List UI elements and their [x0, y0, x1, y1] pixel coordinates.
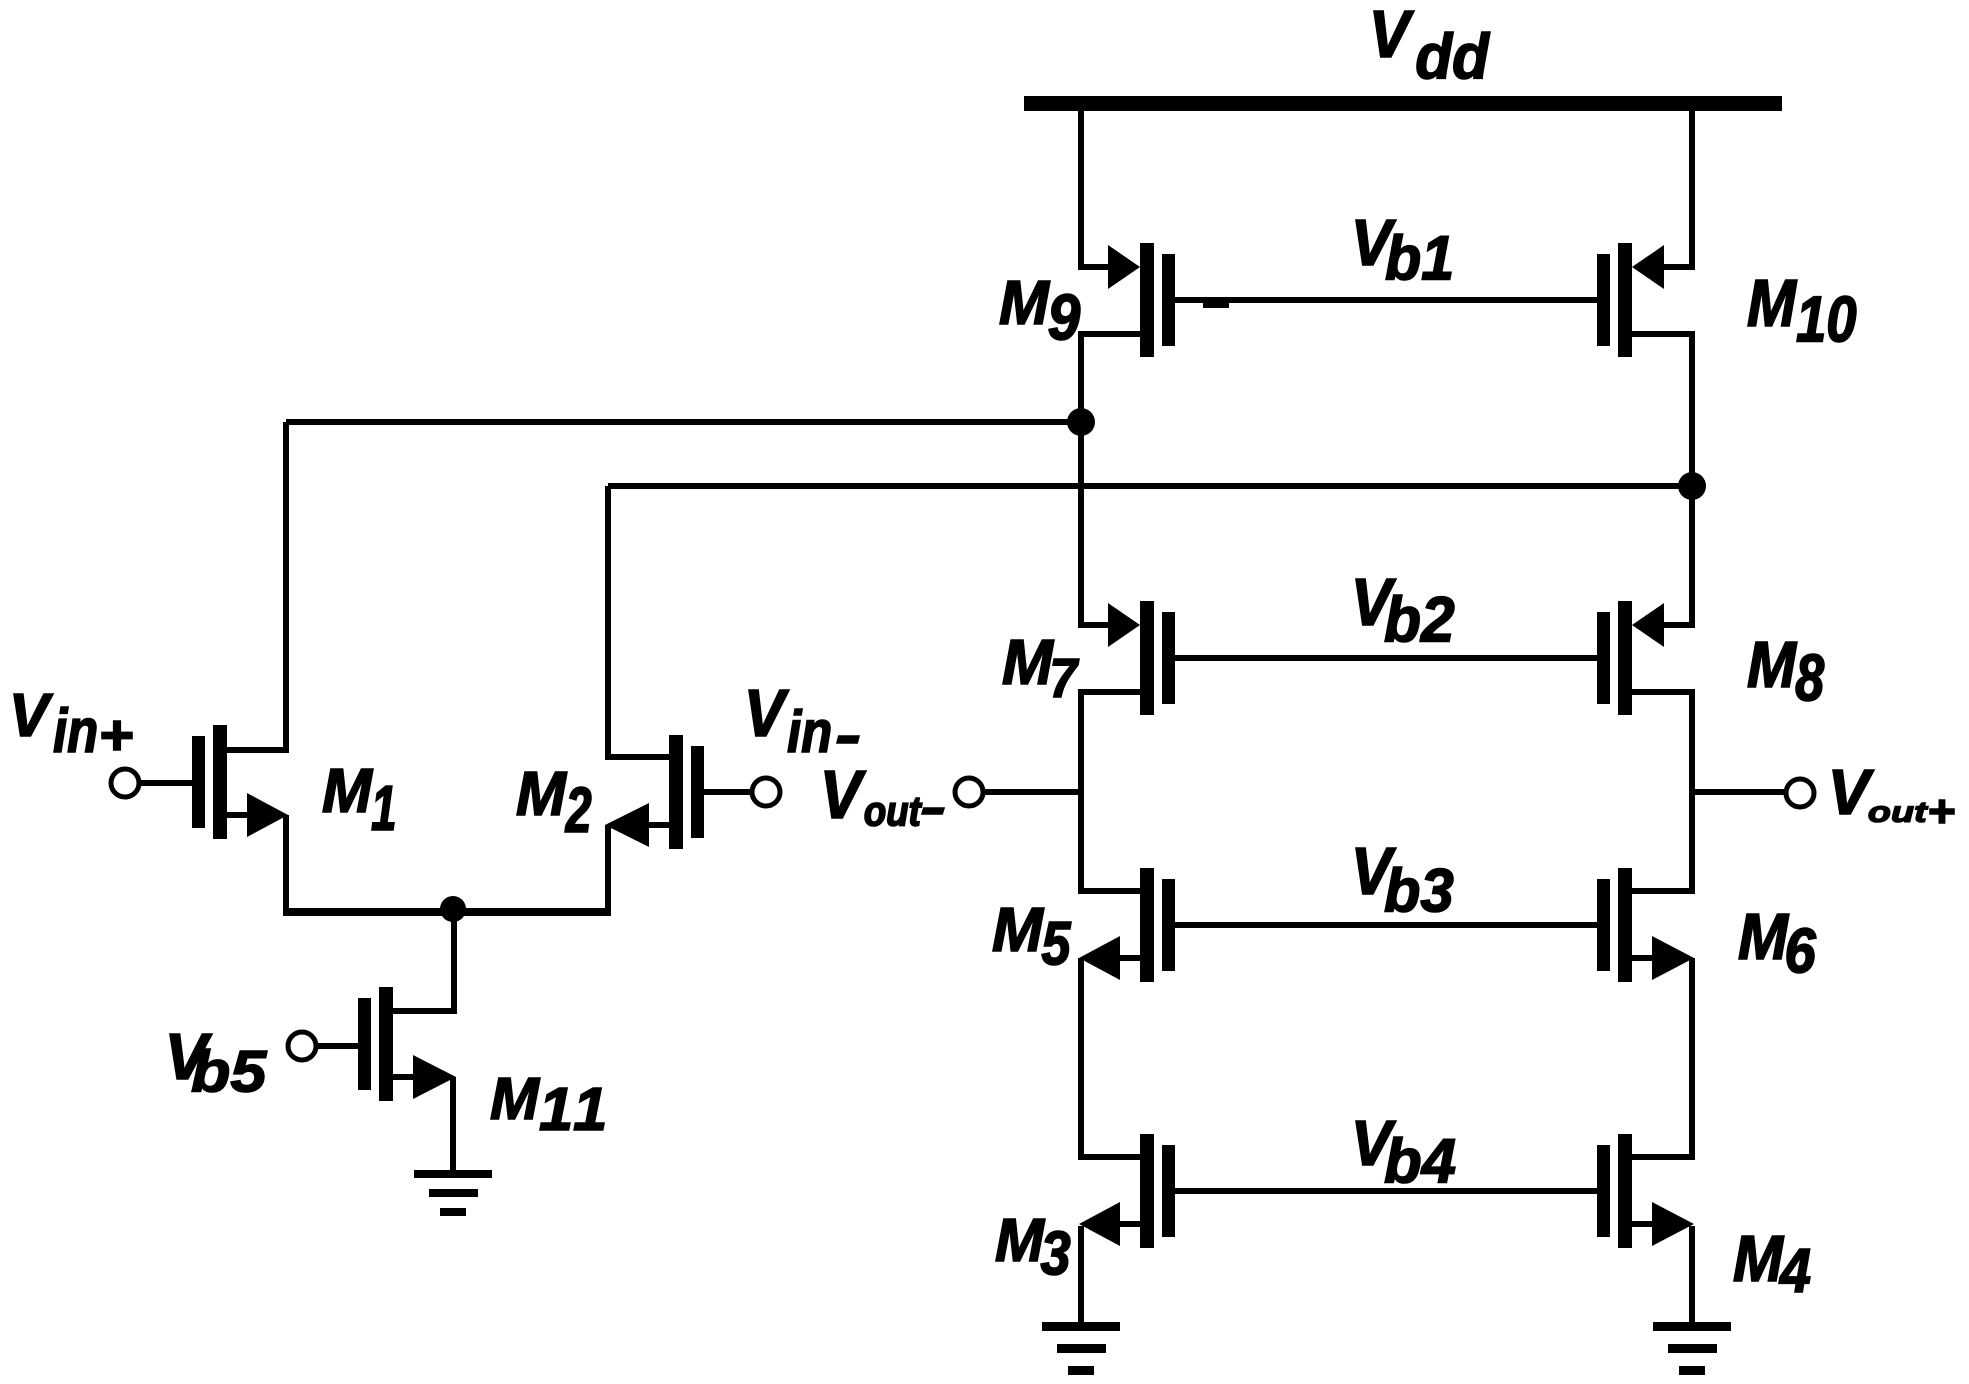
transistor M7 (PMOS cascode)	[1078, 601, 1175, 715]
wire M2 source down	[605, 825, 611, 916]
wire Vout+ to right cascode node	[1692, 789, 1785, 795]
wire M3 source to ground	[1078, 1226, 1084, 1322]
net label Vout+	[1833, 770, 1954, 823]
label M2	[517, 772, 591, 832]
junction node M9 drain / M1 gate	[1067, 408, 1095, 436]
net label Vdd	[1374, 11, 1490, 79]
wire Vdd rail to M10 source	[1689, 108, 1695, 267]
label M9	[1000, 281, 1080, 340]
wire M8 drain to M6 drain	[1689, 691, 1695, 892]
label M4	[1734, 1236, 1810, 1292]
wire M6 source to M4 drain	[1689, 958, 1695, 1157]
net label Vb1	[1356, 220, 1451, 280]
wire M2 gate feedback	[605, 483, 1692, 757]
net label Vin+	[14, 694, 132, 752]
wire Vb4 gate line (M3 gate to M4 gate)	[1175, 1188, 1597, 1194]
wire Vb3 gate line (M5 gate to M6 gate)	[1175, 922, 1597, 928]
junction tail node	[440, 896, 466, 922]
transistor M3 (NMOS)	[1078, 1134, 1175, 1248]
wire Vb5 to M11 gate	[315, 1043, 358, 1049]
wire Vin+ to M1 gate	[138, 780, 192, 786]
wire M10 drain to M8 source	[1689, 334, 1695, 625]
junction node M10 drain / M2 gate	[1678, 472, 1706, 500]
wire tail node to M11 drain	[451, 909, 457, 1011]
transistor M2 (NMOS input)	[605, 735, 704, 849]
wire Vb2 gate line (M7 gate to M8 gate)	[1175, 655, 1597, 661]
wire M1 source down	[283, 815, 289, 916]
wire Vb1 gate line (M9 gate to M10 gate)	[1175, 297, 1597, 308]
label M1	[323, 769, 394, 830]
power rail Vdd	[1024, 96, 1782, 111]
wire M5 source to M3 drain	[1078, 958, 1084, 1157]
transistor M1 (NMOS input)	[192, 725, 289, 839]
wire tail node horizontal	[283, 908, 611, 916]
wire Vdd rail to M9 source	[1078, 108, 1084, 267]
port circle Vin+	[111, 769, 139, 797]
wire M7 drain to M5 drain	[1078, 691, 1084, 892]
port circle Vin-	[752, 778, 780, 806]
transistor M4 (NMOS)	[1597, 1134, 1695, 1248]
port circle Vout+	[1786, 779, 1814, 807]
port circle Vb5	[288, 1032, 316, 1060]
transistor M8 (PMOS cascode)	[1597, 601, 1695, 715]
label M7	[1003, 640, 1079, 697]
transistor M6 (NMOS cascode)	[1597, 868, 1695, 982]
label M10	[1748, 280, 1856, 342]
transistor M5 (NMOS cascode)	[1078, 868, 1175, 982]
wire Vout- to left cascode node	[984, 789, 1081, 795]
net label Vb2	[1356, 579, 1454, 642]
port circle Vout-	[955, 778, 983, 806]
net label Vb3	[1356, 848, 1453, 912]
wire Vin- to M2 gate	[704, 789, 752, 795]
net label Vin-	[749, 690, 859, 752]
ground at M4 source	[1653, 1322, 1731, 1375]
wire M4 source to ground	[1689, 1226, 1695, 1322]
wire M11 source to ground	[450, 1077, 456, 1170]
net label Vout-	[825, 771, 944, 826]
net label Vb5	[170, 1034, 267, 1092]
label M11	[491, 1078, 604, 1130]
transistor M11 (NMOS tail source)	[358, 987, 457, 1101]
label M5	[993, 908, 1071, 965]
ground at M3 source	[1042, 1322, 1120, 1375]
wire M1 gate feedback	[283, 419, 1081, 750]
label M6	[1739, 914, 1816, 973]
ground at M11 source	[414, 1170, 492, 1216]
transistor M10 (PMOS)	[1597, 243, 1695, 357]
wire M9 drain to M7 source	[1078, 334, 1084, 625]
label M3	[996, 1219, 1070, 1275]
label M8	[1748, 642, 1824, 701]
net label Vb4	[1356, 1121, 1455, 1183]
transistor M9 (PMOS)	[1078, 243, 1175, 357]
